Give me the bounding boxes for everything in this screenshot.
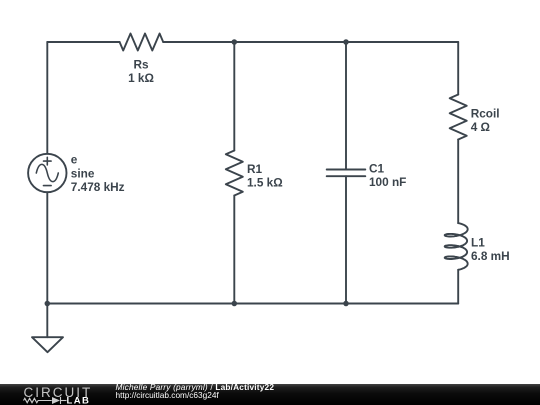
wire R1 branch bottom — [233, 196, 235, 304]
svg-text:Rs: Rs — [133, 58, 149, 72]
ground symbol — [32, 337, 63, 352]
junction node bottom R1 — [232, 301, 238, 307]
voltage source plus sign — [44, 157, 52, 165]
junction node top R1 — [232, 39, 238, 45]
junction node ground — [45, 301, 51, 307]
wire C1 branch top — [345, 42, 347, 170]
wire R1 branch top — [233, 42, 235, 151]
footer text line 1 — [116, 383, 275, 391]
inductor L1 coil — [445, 223, 468, 270]
footer bar — [0, 384, 540, 405]
wire L1 to bottom corner — [457, 270, 459, 304]
svg-text:C1: C1 — [369, 162, 385, 176]
voltage source sine wave — [36, 157, 58, 185]
wire left vertical lower — [46, 192, 48, 337]
svg-text:sine: sine — [71, 167, 95, 181]
voltage source e circle — [28, 154, 66, 192]
svg-text:6.8 mH: 6.8 mH — [471, 249, 510, 263]
CircuitLab logo — [0, 384, 110, 405]
svg-text:e: e — [71, 153, 78, 167]
svg-text:L1: L1 — [471, 236, 485, 250]
svg-text:LAB: LAB — [67, 396, 91, 405]
junction node top C1 — [343, 39, 349, 45]
svg-text:1.5 kΩ: 1.5 kΩ — [247, 175, 283, 189]
bottom wire rail — [47, 303, 458, 305]
svg-text:Rcoil: Rcoil — [471, 107, 500, 121]
voltage source minus sign — [44, 185, 52, 187]
wire C1 branch bottom — [345, 176, 347, 303]
wire right vertical top — [457, 42, 459, 95]
wire left vertical upper — [46, 42, 48, 154]
footer text line 2 — [116, 391, 219, 399]
svg-text:7.478 kHz: 7.478 kHz — [71, 180, 125, 194]
wire Rcoil to L1 — [457, 140, 459, 224]
resistor Rcoil — [450, 95, 467, 140]
capacitor C1 plates — [327, 170, 366, 177]
svg-text:100 nF: 100 nF — [369, 175, 406, 189]
wire top-left from source column to Rs — [47, 41, 119, 43]
wire top from Rs to right corner — [163, 41, 458, 43]
svg-text:R1: R1 — [247, 162, 263, 176]
junction node bottom C1 — [343, 301, 349, 307]
svg-text:1 kΩ: 1 kΩ — [128, 71, 154, 85]
resistor R1 — [226, 151, 243, 196]
resistor Rs — [120, 34, 164, 51]
svg-text:4 Ω: 4 Ω — [471, 120, 490, 134]
